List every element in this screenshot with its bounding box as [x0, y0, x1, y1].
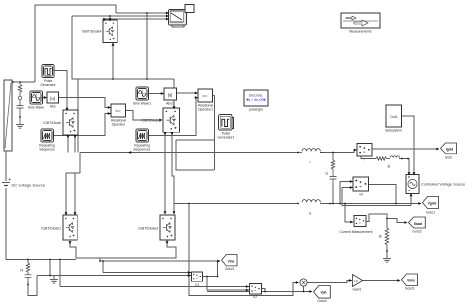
wire scope input 2 — [72, 15, 166, 17]
svg-text:Sequence1: Sequence1 — [133, 147, 150, 151]
wire IGBT1 emitter loop — [70, 241, 218, 261]
wire v1 input upper — [103, 272, 191, 274]
wire IGBT2 emitter to IGBT3 a — [164, 132, 166, 213]
svg-text:1/2: 1/2 — [354, 279, 359, 283]
series RC branch l4 — [25, 263, 32, 281]
wire current measurement feed — [345, 204, 351, 223]
series RLC snubber branch — [17, 82, 24, 124]
svg-text:powergui: powergui — [249, 108, 263, 112]
wire IGBT emitter stub a — [67, 135, 69, 153]
svg-text:Ts = 5e-005: Ts = 5e-005 — [247, 98, 266, 102]
wire scope input 1 — [116, 12, 166, 14]
svg-text:l4: l4 — [20, 269, 23, 273]
wire abs to relational — [59, 98, 112, 108]
wire l4 branch top stub — [27, 260, 29, 264]
svg-text:Operator1: Operator1 — [198, 107, 213, 111]
wire inductor l output — [320, 150, 357, 153]
wire battery negative down — [5, 151, 7, 181]
series RLC branch l6 — [376, 156, 400, 161]
svg-text:>=: >= — [202, 94, 208, 99]
pulse generator — [42, 65, 54, 78]
series RLC branch l2 — [330, 160, 337, 185]
svg-text:IGBT/Diode2: IGBT/Diode2 — [141, 119, 161, 123]
current measurement i — [357, 144, 372, 157]
wire IGBT1 collector drop b — [74, 173, 76, 214]
ground under snubber — [16, 125, 24, 129]
wire gate drop IGBT4 b — [109, 16, 111, 20]
wire rail to v1 path — [189, 204, 296, 296]
svg-text:Controlled Voltage Source: Controlled Voltage Source — [421, 183, 465, 187]
svg-text:Subsystem: Subsystem — [385, 129, 402, 133]
wire product lower tap — [207, 291, 304, 293]
wire v0 minus lead — [342, 187, 353, 189]
wire v0 plus drop — [339, 182, 341, 204]
wire v1 output — [203, 276, 208, 278]
svg-text:l6: l6 — [388, 165, 391, 169]
sine wave — [30, 91, 43, 104]
svg-text:Sequence: Sequence — [39, 147, 54, 151]
wire ground stub — [53, 276, 55, 280]
svg-text:>=: >= — [115, 109, 121, 114]
wire v1 to goto3 — [207, 261, 219, 277]
wire IGBT emitter stub b — [74, 135, 76, 153]
svg-text:Goto: Goto — [445, 156, 452, 160]
svg-text:Gain1: Gain1 — [352, 288, 361, 292]
relational operator — [111, 104, 126, 117]
arrowheads — [44, 12, 440, 293]
subsystem Out1 — [386, 105, 402, 127]
svg-text:Goto1: Goto1 — [426, 211, 435, 215]
svg-text:Goto3: Goto3 — [225, 267, 234, 271]
wire l8 bottom stub — [386, 247, 388, 258]
battery DC voltage Source — [2, 178, 11, 185]
pulse generator1 — [229, 118, 234, 129]
wire inductor l1 output — [320, 203, 342, 205]
abs1 block — [164, 88, 177, 100]
voltage measurement v0 — [353, 177, 369, 191]
svg-text:IGBT/Diode3: IGBT/Diode3 — [138, 227, 158, 231]
wire IGBT4 emitter down — [112, 43, 114, 79]
IGBT/Diode1 block — [63, 215, 77, 240]
wire lower rail to inductor l1 — [174, 203, 298, 205]
wire product bottom stub — [303, 286, 305, 292]
wire gate bus vertical b — [79, 153, 81, 174]
goto3 tag — [222, 255, 238, 266]
svg-text:Current Measurement: Current Measurement — [340, 230, 373, 234]
svg-text:Goto4: Goto4 — [317, 299, 326, 303]
repeating sequence1 — [136, 129, 149, 142]
wire ground branch left — [49, 260, 51, 276]
wire scope tap down — [146, 13, 148, 79]
svg-text:l8: l8 — [379, 235, 382, 239]
svg-text:l2: l2 — [325, 172, 329, 175]
svg-text:|u|: |u| — [168, 93, 173, 98]
svg-text:Vinv: Vinv — [228, 260, 235, 264]
wire i block to Igrid goto — [372, 148, 438, 150]
svg-text:Operator: Operator — [112, 122, 126, 126]
wire product to goto4 — [304, 291, 312, 293]
wire midpoint frame right — [214, 96, 216, 171]
wire grid rail upper — [342, 203, 420, 205]
wire l2 branch bottom stub — [332, 185, 334, 204]
measurements subsystem — [341, 13, 380, 28]
svg-text:IGBT/Diode: IGBT/Diode — [43, 121, 61, 125]
svg-text:Vph: Vph — [320, 291, 326, 295]
svg-text:Out1: Out1 — [390, 115, 398, 119]
svg-text:Generator1: Generator1 — [217, 135, 234, 139]
wire product to gain — [307, 281, 352, 283]
wire current measurement out — [366, 214, 404, 223]
wire v2 output join — [262, 289, 266, 292]
svg-text:v0: v0 — [359, 193, 363, 197]
wire IGBT3 emitter loop — [100, 240, 176, 258]
wire IGBT2 collector drop — [173, 79, 175, 108]
IGBT/Diode2 block — [163, 108, 180, 132]
wire i block to l6 — [361, 156, 376, 159]
current measurement block — [354, 216, 366, 227]
goto2 Iload — [409, 217, 426, 228]
wire midpoint frame bottom — [176, 140, 214, 170]
goto1 Vgrid — [423, 197, 439, 209]
inductor l1 — [302, 200, 320, 203]
wire IGBT2 emitter to IGBT3 b — [172, 132, 174, 213]
inductor l — [298, 149, 323, 153]
wire relational1 output — [213, 95, 215, 97]
svg-text:Discrete,: Discrete, — [249, 94, 263, 98]
svg-text:Abs: Abs — [50, 105, 56, 109]
relational operator1 — [198, 89, 213, 102]
wire gate bus vertical a — [77, 79, 79, 153]
scope — [169, 5, 195, 28]
product block — [300, 279, 307, 286]
repeating sequence — [41, 129, 54, 142]
svg-text:IGBT/Diode1: IGBT/Diode1 — [41, 227, 61, 231]
svg-text:V1: V1 — [195, 283, 199, 287]
wire x103 drop — [102, 261, 104, 273]
svg-text:Igrid: Igrid — [446, 148, 453, 152]
wire inverter output upper — [80, 152, 298, 154]
wire midpoint frame top — [176, 139, 214, 141]
wire l2 branch top stub — [332, 153, 334, 161]
svg-text:Abs1: Abs1 — [166, 102, 174, 106]
IGBT/Diode4 block — [103, 20, 117, 43]
svg-text:V2: V2 — [253, 295, 257, 299]
IGBT/Diode3 block — [160, 215, 175, 240]
wire Vgrid arrow feed — [396, 203, 420, 205]
goto4 tag — [314, 286, 331, 299]
wire v1 input lower — [37, 275, 191, 277]
wire v0 plus lead — [340, 181, 353, 183]
wire v2 input lower feed — [207, 277, 249, 290]
wire top feedback loop — [35, 5, 116, 82]
voltage measurement v1 — [192, 272, 203, 281]
wire pulse generator to IGBT collector — [54, 71, 67, 110]
wire repeating sequence to relational — [54, 114, 112, 136]
wire x60 drop — [59, 260, 61, 287]
wire sine wave1 to abs1 — [149, 93, 165, 95]
wire relational to IGBT2 gate — [126, 111, 163, 121]
wire IGBT1 collector drop a — [65, 173, 67, 214]
svg-text:Measurements: Measurements — [349, 30, 372, 34]
wire gate drop IGBT4 a — [103, 19, 105, 20]
wire v2 input upper — [60, 286, 249, 288]
IGBT/Diode block — [63, 110, 78, 135]
svg-text:Vgrid: Vgrid — [428, 202, 437, 206]
wire left rail to bridge — [72, 16, 174, 79]
ground mid bottom — [50, 280, 58, 284]
wire grid rail lower — [342, 204, 411, 206]
controlled voltage source — [406, 175, 419, 194]
voltage measurement v2 — [250, 284, 262, 294]
svg-text:Vrms: Vrms — [407, 279, 415, 283]
svg-text:Goto5: Goto5 — [405, 287, 414, 291]
goto5 tag — [402, 274, 418, 286]
wire l8 top stub — [386, 219, 388, 229]
wire l6 to source plus — [399, 159, 409, 175]
wire abs1 to relational1 — [177, 92, 199, 94]
svg-text:IGBT/Diode4: IGBT/Diode4 — [82, 30, 102, 34]
gain1 triangle — [353, 275, 363, 287]
wire lower gate horizontal — [66, 172, 80, 174]
sine wave1 — [136, 87, 149, 100]
DC voltage source tall block — [4, 80, 12, 151]
svg-text:l1: l1 — [309, 212, 312, 216]
svg-text:DC voltage Source: DC voltage Source — [12, 183, 46, 188]
ground under l8 — [383, 259, 391, 263]
powergui — [244, 90, 268, 106]
svg-text:Generator: Generator — [40, 83, 56, 87]
wire subsystem to source signal — [402, 116, 415, 174]
load resistor l8 — [385, 228, 389, 247]
wire sine wave to abs — [43, 97, 48, 99]
svg-text:|u|: |u| — [50, 96, 55, 101]
wire battery to bottom rail — [6, 188, 76, 260]
wire l4 branch bottom loop — [28, 276, 37, 296]
wire gain to goto5 — [363, 280, 400, 282]
wire repeating sequence1 to relational1 — [149, 98, 199, 136]
svg-text:Sine Wave1: Sine Wave1 — [133, 102, 151, 106]
svg-text:Iload: Iload — [414, 222, 422, 226]
goto Igrid — [441, 143, 457, 154]
wire scope input 3 — [104, 18, 166, 20]
svg-text:Goto2: Goto2 — [412, 230, 421, 234]
wire v0 minus drop — [341, 188, 343, 206]
wire source minus stub — [410, 194, 412, 206]
wire v0 output to Vgrid goto — [369, 185, 397, 204]
abs block — [47, 92, 59, 103]
svg-text:Sine Wave: Sine Wave — [28, 106, 44, 110]
wire dc bus left — [12, 81, 35, 83]
